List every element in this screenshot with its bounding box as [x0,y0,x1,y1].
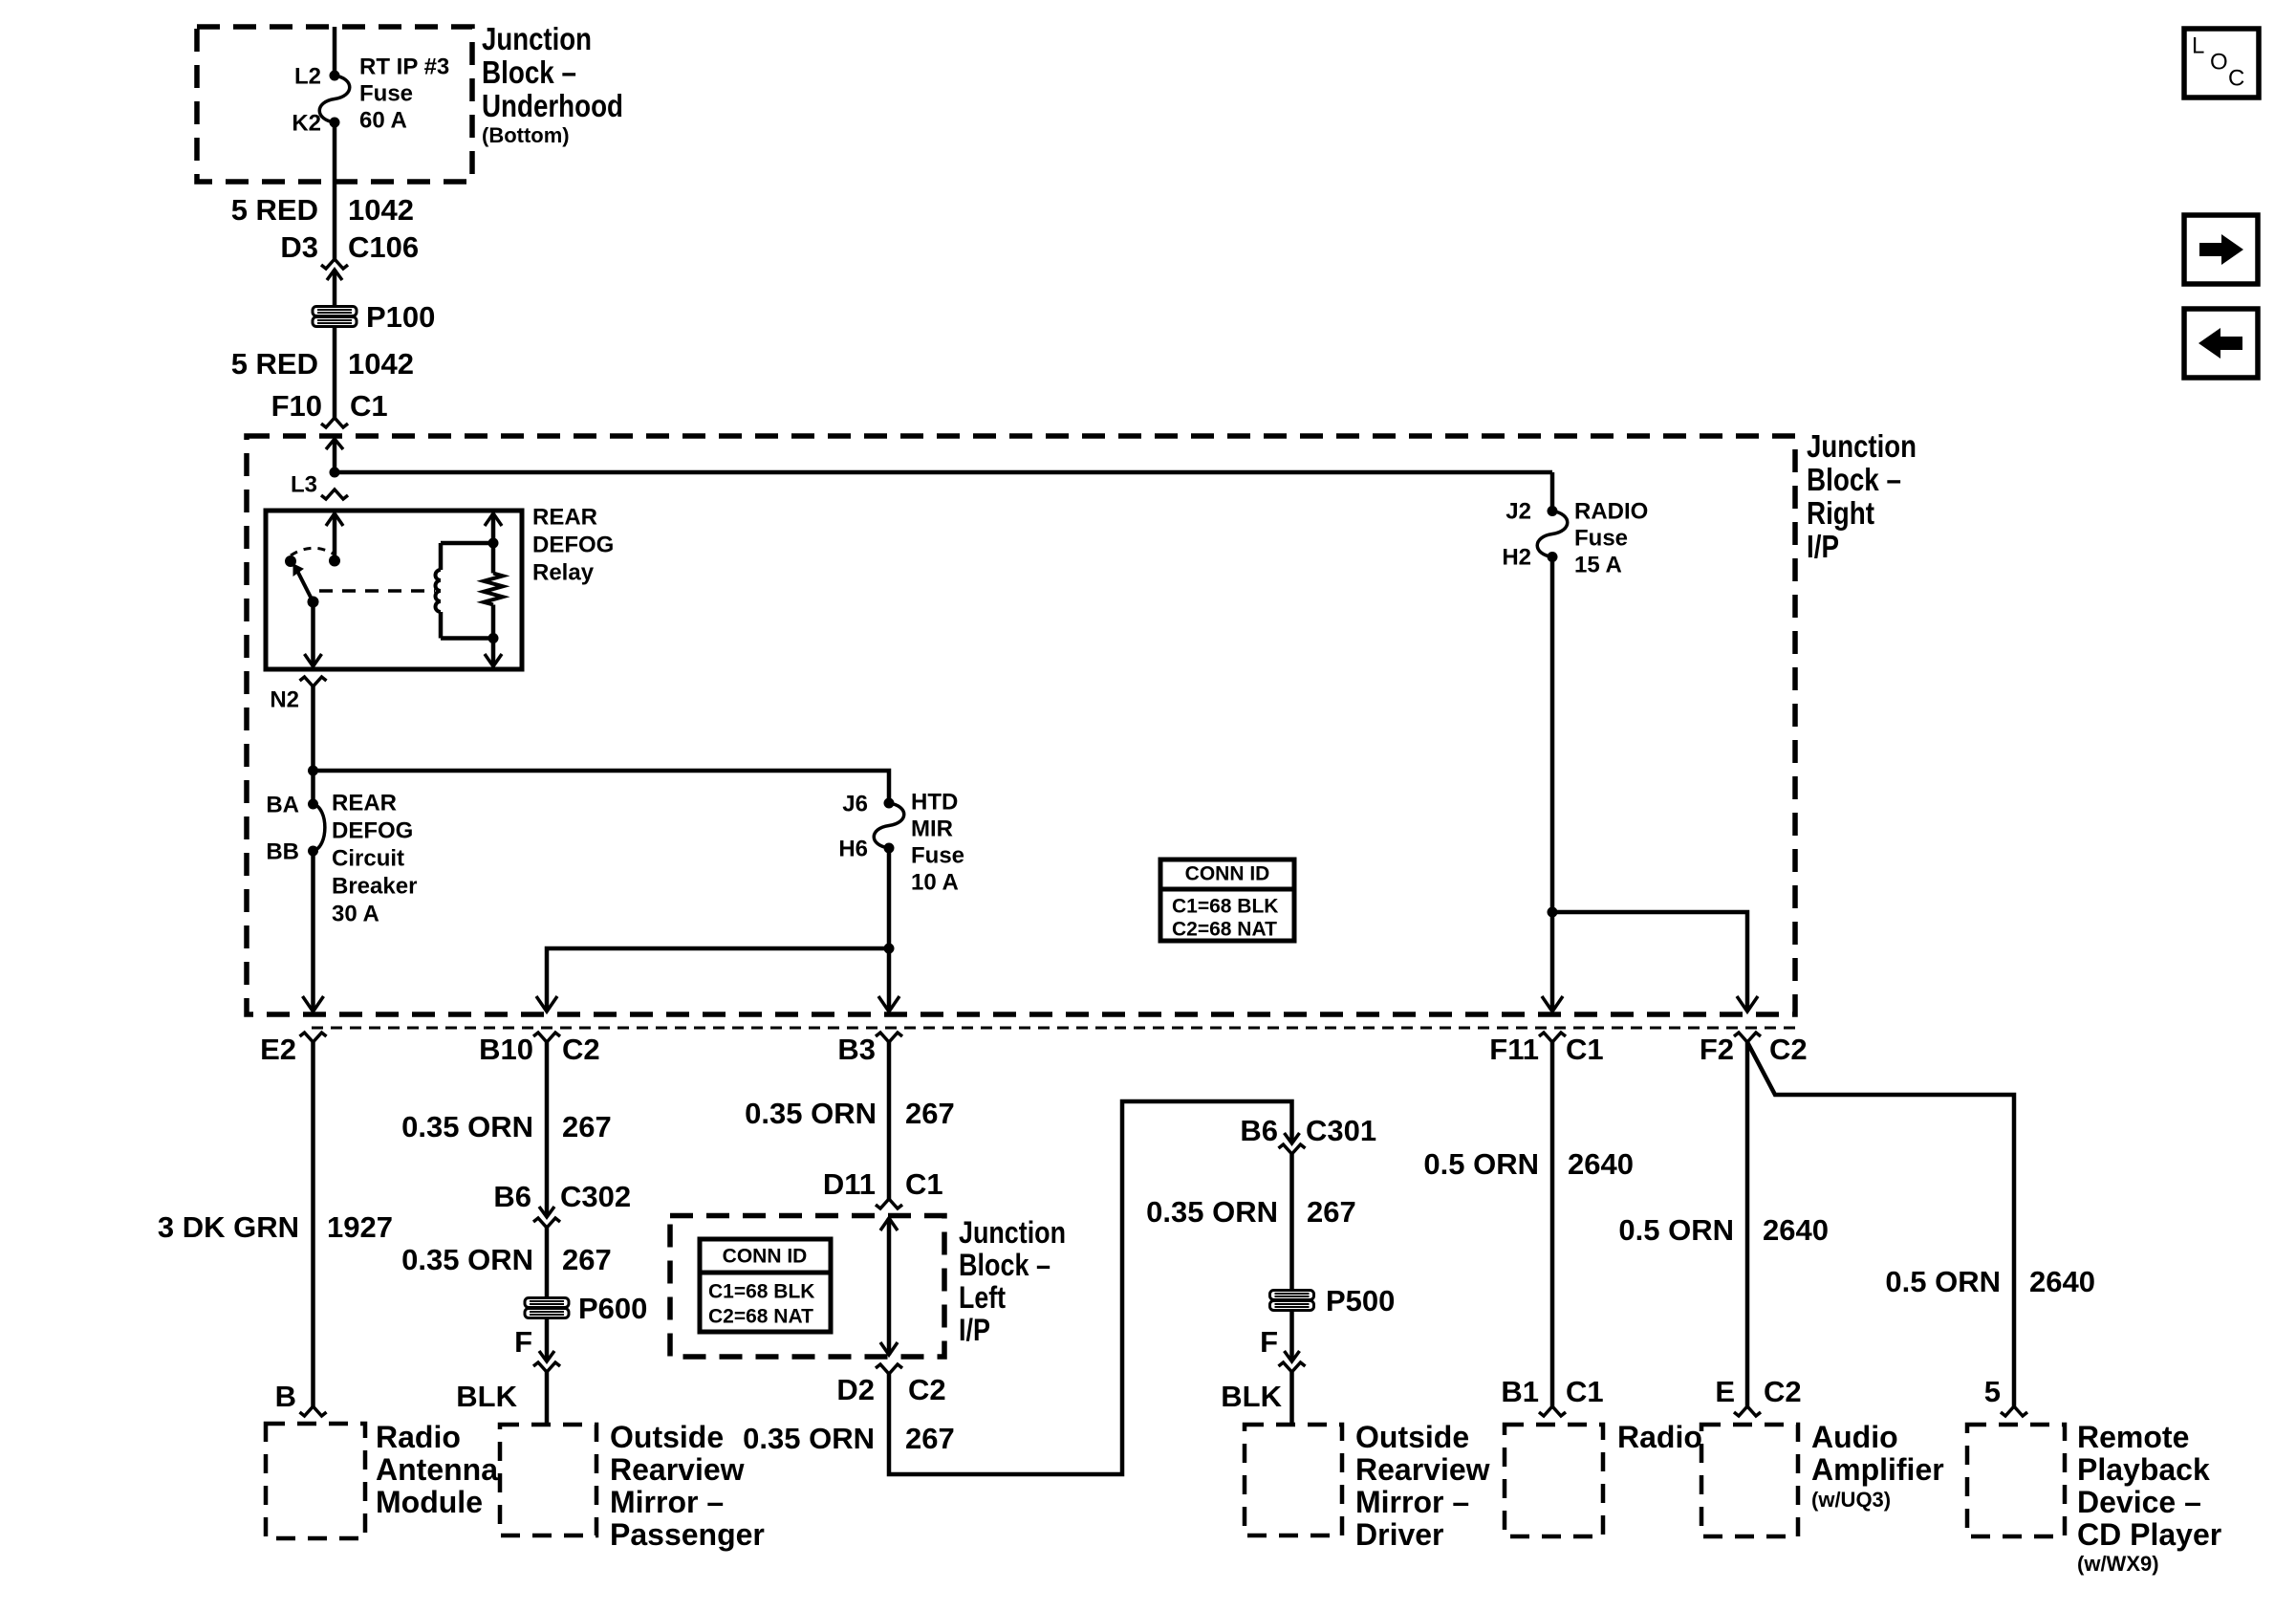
wire branch to HTD MIR fuse [314,771,890,803]
wire branch to CD player (diagonal + horizontal) [1747,1042,2014,1406]
svg-text:0.35 ORN: 0.35 ORN [1146,1195,1278,1229]
relay label REAR DEFOG Relay [532,504,614,585]
wire H6 down to junction [887,848,892,948]
svg-text:267: 267 [562,1110,612,1143]
relay resistor branch [484,513,503,666]
svg-text:F: F [1260,1325,1278,1359]
pin BB [266,839,299,865]
fuse RADIO 15 A (pins J2/H2) [1537,472,1568,562]
svg-text:Underhood: Underhood [482,88,623,123]
svg-text:Left: Left [959,1280,1006,1315]
label Outside Rearview Mirror - Passenger [610,1420,765,1552]
svg-text:2640: 2640 [1763,1213,1829,1247]
pin B1 / C1 labels [1501,1375,1603,1408]
svg-text:C2: C2 [908,1373,946,1406]
svg-text:E2: E2 [260,1033,296,1066]
pin D2 / C2 labels [836,1373,945,1406]
wire label 0.35 ORN | 267 (C301) [1146,1195,1356,1229]
wire 3 DK GRN 1927 to radio antenna module [311,1042,315,1406]
svg-text:C2: C2 [1764,1375,1802,1408]
pin F label [514,1325,532,1359]
svg-text:3 DK GRN: 3 DK GRN [158,1210,299,1244]
svg-text:Junction: Junction [482,21,592,56]
relay switch arm with arrowhead [293,564,319,608]
wire label 0.5 ORN | 2640 (F2) [1618,1213,1829,1247]
pin K2 [292,111,321,137]
svg-text:C2=68 NAT: C2=68 NAT [708,1306,813,1328]
wire 0.35 ORN 267 (C301 to P500) [1289,1154,1294,1291]
svg-text:P100: P100 [366,300,435,334]
svg-text:REAR: REAR [532,504,597,530]
svg-text:Module: Module [376,1485,483,1519]
svg-text:P500: P500 [1326,1284,1395,1317]
relay switch open contact [285,555,296,567]
svg-text:J2: J2 [1505,499,1531,525]
svg-text:1927: 1927 [327,1210,393,1244]
radio box [1505,1425,1603,1536]
connector chevron at F2 [1734,1033,1761,1042]
svg-text:CONN ID: CONN ID [1185,863,1270,885]
relay switch travel arc (dashed) [291,548,335,555]
svg-text:Rearview: Rearview [1355,1452,1490,1487]
svg-text:RADIO: RADIO [1574,498,1648,524]
svg-text:CONN ID: CONN ID [723,1246,808,1268]
block label: Junction Block - Left I/P [959,1215,1066,1347]
svg-text:1042: 1042 [348,193,414,227]
svg-text:HTD: HTD [911,789,958,815]
svg-text:5 RED: 5 RED [231,347,318,381]
wire H2 down to junction [1550,557,1555,913]
block label: Junction Block - Right I/P [1807,428,1917,564]
svg-text:F2: F2 [1700,1033,1734,1066]
svg-text:15 A: 15 A [1574,552,1622,577]
pin B10 / C2 labels [479,1033,600,1066]
svg-text:Radio: Radio [1617,1420,1702,1454]
svg-text:Playback: Playback [2077,1452,2210,1487]
chevron into radio antenna module [300,1406,327,1416]
svg-text:Relay: Relay [532,559,595,585]
svg-text:C302: C302 [560,1180,631,1213]
relay switch fixed contact [329,555,340,567]
chevron into relay from L3 [321,490,348,499]
pin B6 / C301 labels [1240,1114,1376,1147]
wire P600 to mirror with connector F [533,1317,560,1424]
svg-text:Breaker: Breaker [332,873,417,899]
fuse label HTD MIR Fuse 10 A [911,789,964,895]
wire from L3 to RADIO fuse (horizontal) [335,470,1552,475]
label Audio Amplifier (w/UQ3) [1811,1420,1944,1512]
pin E2 label [260,1033,296,1066]
wire from box top to fuse pin L2 [333,27,337,76]
svg-text:K2: K2 [292,111,321,137]
chevron into audio amplifier [1734,1406,1761,1416]
wire color BLK label [456,1380,517,1413]
svg-text:(w/WX9): (w/WX9) [2077,1552,2159,1576]
node N2 chevron [300,677,327,686]
connector D2 chevron [876,1364,902,1374]
svg-text:J6: J6 [842,792,868,817]
right arrow icon box [2184,215,2258,284]
grommet P600 [525,1292,647,1325]
svg-text:CD Player: CD Player [2077,1517,2221,1552]
fuse label RADIO Fuse 15 A [1574,498,1648,577]
radio antenna module box [266,1424,365,1538]
svg-text:5: 5 [1984,1375,2001,1408]
svg-text:C2: C2 [1769,1033,1808,1066]
svg-text:C106: C106 [348,230,419,264]
wire branch to B10 exit [536,948,889,1012]
svg-text:10 A: 10 A [911,869,959,895]
pin F2 / C2 labels [1700,1033,1808,1066]
svg-text:0.5 ORN: 0.5 ORN [1618,1213,1734,1247]
svg-text:2640: 2640 [2029,1265,2095,1298]
svg-text:0.5 ORN: 0.5 ORN [1885,1265,2001,1298]
connector C302 (in-line) [533,1207,560,1228]
svg-text:30 A: 30 A [332,901,379,926]
block label: Junction Block - Underhood (Bottom) [482,21,623,147]
svg-text:0.35 ORN: 0.35 ORN [401,1110,533,1143]
junction dot to HTD MIR branch [308,766,318,776]
svg-text:Mirror –: Mirror – [610,1485,724,1519]
wire label 0.35 ORN | 267 (second) [401,1243,612,1276]
wire P500 to mirror with connector F [1279,1310,1306,1424]
outside rearview mirror - driver box [1245,1425,1342,1535]
wire 0.35 ORN 267 routed D2 to C301 [889,1101,1300,1474]
svg-text:C: C [2228,65,2244,91]
wire N2 down to breaker [311,686,315,804]
CONN ID table (right I/P) [1160,860,1294,941]
svg-text:5 RED: 5 RED [231,193,318,227]
node L3 junction dot [330,468,340,478]
svg-text:F11: F11 [1489,1033,1539,1066]
svg-text:C301: C301 [1306,1114,1376,1147]
pin L2 [294,64,321,90]
svg-text:0.35 ORN: 0.35 ORN [743,1422,875,1455]
junction block - right I/P box [247,436,1795,1014]
svg-text:BLK: BLK [1221,1380,1282,1413]
wire branch to F2 exit [1552,912,1758,1012]
svg-text:BA: BA [266,793,299,818]
relay REAR DEFOG box [266,511,522,669]
svg-text:Amplifier: Amplifier [1811,1452,1944,1487]
svg-text:L3: L3 [291,472,317,498]
svg-text:F: F [514,1325,532,1359]
fuse HTD MIR 10 A (pins J6/H6) [874,798,904,854]
audio amplifier box [1701,1425,1798,1536]
relay switch input arrow [326,513,343,560]
svg-text:D2: D2 [836,1373,875,1406]
svg-text:L2: L2 [294,64,321,90]
pin F label (driver) [1260,1325,1278,1359]
svg-text:0.5 ORN: 0.5 ORN [1423,1147,1539,1181]
svg-text:E: E [1715,1375,1735,1408]
wire to B3 exit [878,948,899,1012]
svg-text:Antenna: Antenna [376,1452,498,1487]
svg-text:267: 267 [905,1422,955,1455]
connector chevron at B3 [876,1033,902,1042]
svg-text:C1: C1 [905,1167,943,1201]
svg-text:267: 267 [1307,1195,1356,1229]
svg-text:Outside: Outside [1355,1420,1469,1454]
svg-text:C1=68 BLK: C1=68 BLK [708,1281,814,1303]
chevron into radio [1539,1406,1566,1416]
connector chevron at E2 [300,1033,327,1042]
wire 5 RED 1042 (lower segment) [333,326,337,418]
wire label 0.5 ORN | 2640 (CD player) [1885,1265,2095,1298]
svg-text:C2: C2 [562,1033,600,1066]
pin J2 [1505,499,1531,525]
pin 5 label [1984,1375,2001,1408]
svg-text:Rearview: Rearview [610,1452,745,1487]
svg-text:D3: D3 [280,230,318,264]
pin J6 [842,792,868,817]
svg-text:DEFOG: DEFOG [332,817,413,843]
svg-text:0.35 ORN: 0.35 ORN [745,1097,877,1130]
svg-text:267: 267 [562,1243,612,1276]
pin L3 label [291,472,317,498]
svg-text:Mirror –: Mirror – [1355,1485,1469,1519]
svg-text:Fuse: Fuse [359,80,413,106]
svg-text:Fuse: Fuse [911,842,964,868]
wire label 0.35 ORN | 267 (D2) [743,1422,955,1455]
grommet P100 [313,300,435,334]
junction block - left I/P box [670,1216,944,1358]
svg-text:Audio: Audio [1811,1420,1898,1454]
svg-text:C2=68 NAT: C2=68 NAT [1172,919,1277,941]
svg-text:C1: C1 [1566,1033,1604,1066]
svg-text:2640: 2640 [1568,1147,1634,1181]
relay switch output wire with arrow [305,602,322,667]
svg-text:I/P: I/P [959,1313,990,1347]
connector C106 pin D3 label [280,230,419,264]
svg-text:RT IP #3: RT IP #3 [359,54,449,79]
pin E / C2 labels [1715,1375,1801,1408]
connector chevron at B10 [533,1033,560,1042]
pin D11 / C1 labels [823,1167,943,1201]
svg-text:Block –: Block – [482,54,576,90]
svg-text:0.35 ORN: 0.35 ORN [401,1243,533,1276]
left arrow icon box [2184,309,2258,378]
wire label 0.35 ORN | 267 (B3) [745,1097,955,1130]
svg-text:Remote: Remote [2077,1420,2189,1454]
svg-text:Fuse: Fuse [1574,525,1628,551]
svg-text:267: 267 [905,1097,955,1130]
svg-text:N2: N2 [270,687,299,713]
connector C106 (in-line, female + male) [321,259,348,307]
pin N2 label [270,687,299,713]
relay coil branch [436,543,494,639]
breaker label REAR DEFOG Circuit Breaker 30 A [332,790,417,926]
svg-text:Radio: Radio [376,1420,461,1454]
pin B label [275,1380,296,1413]
svg-text:Circuit: Circuit [332,845,404,871]
connector D11 chevron [876,1199,902,1208]
junction dot F11/F2 [1548,907,1558,918]
svg-text:Passenger: Passenger [610,1517,765,1552]
svg-text:DEFOG: DEFOG [532,532,614,557]
label Radio Antenna Module [376,1420,498,1519]
pin BA [266,793,299,818]
pin F11 / C1 labels [1489,1033,1603,1066]
connector row line (fine dashed) [312,1027,1795,1030]
svg-text:H2: H2 [1502,545,1531,571]
svg-text:B6: B6 [1240,1114,1278,1147]
svg-text:B1: B1 [1501,1375,1539,1408]
wire label 5 RED | 1042 (second) [231,347,414,381]
svg-text:B: B [275,1380,296,1413]
pin F10 / C1 labels [271,389,388,423]
wire to F11 exit [1542,912,1563,1012]
svg-text:B3: B3 [837,1033,876,1066]
svg-text:O: O [2210,49,2228,75]
remote playback device box [1967,1425,2065,1536]
grommet P500 [1270,1284,1396,1317]
wire 0.5 ORN 2640 (F11 to radio) [1550,1042,1555,1406]
svg-text:Junction: Junction [1807,428,1917,464]
wire label 0.5 ORN | 2640 (F11) [1423,1147,1634,1181]
svg-text:REAR: REAR [332,790,397,816]
outside rearview mirror - passenger box [500,1425,596,1535]
chevron into remote playback device [2001,1406,2027,1416]
pin B6 / C302 labels [493,1180,631,1213]
svg-text:C1: C1 [1566,1375,1604,1408]
pin B3 label [837,1033,876,1066]
svg-text:P600: P600 [578,1292,647,1325]
svg-text:60 A: 60 A [359,107,407,133]
svg-text:I/P: I/P [1807,529,1839,564]
CONN ID table (left I/P) [700,1239,831,1332]
wire 0.5 ORN 2640 (F2 to audio amplifier) [1745,1042,1750,1406]
svg-text:H6: H6 [838,837,868,862]
pin H2 [1502,545,1531,571]
wire label 0.35 ORN | 267 [401,1110,612,1143]
pin H6 [838,837,868,862]
junction block - underhood (bottom) box [197,27,472,182]
svg-text:MIR: MIR [911,816,953,841]
wire 0.35 ORN 267 (B3 to D11) [887,1042,892,1199]
wire 0.35 ORN 267 (B10 to C302) [545,1042,550,1215]
circuit breaker REAR DEFOG 30 A (pins BA/BB) [308,799,325,857]
svg-text:D11: D11 [823,1167,876,1201]
wire color BLK label (driver) [1221,1380,1282,1413]
svg-text:Block –: Block – [959,1248,1051,1282]
svg-text:Block –: Block – [1807,462,1901,497]
svg-text:Right: Right [1807,495,1874,531]
svg-text:1042: 1042 [348,347,414,381]
label Radio [1617,1420,1702,1454]
relay coil control dashed line [319,589,435,593]
wire label 3 DK GRN | 1927 [158,1210,393,1244]
fuse RT IP #3 60 A (pins L2/K2) [319,71,350,128]
svg-text:C1: C1 [350,389,388,423]
svg-text:(w/UQ3): (w/UQ3) [1811,1488,1891,1512]
svg-text:C1=68 BLK: C1=68 BLK [1172,896,1278,918]
label Remote Playback Device - CD Player (w/WX9) [2077,1420,2221,1576]
connector C301 chevron [1279,1144,1306,1154]
svg-text:Junction: Junction [959,1215,1066,1250]
svg-text:BB: BB [266,839,299,865]
svg-text:Driver: Driver [1355,1517,1444,1552]
svg-text:B10: B10 [479,1033,533,1066]
LOC icon box [2184,29,2259,98]
wire label 5 RED | 1042 [231,193,414,227]
wire breaker to E2 exit [303,851,324,1012]
svg-text:BLK: BLK [456,1380,517,1413]
wire through left I/P box with arrows [880,1218,898,1355]
wire 5 RED 1042 (upper segment) [333,122,337,259]
svg-text:Outside: Outside [610,1420,724,1454]
wire 0.35 ORN 267 (C302 to P600) [545,1228,550,1298]
connector chevron at F11 [1539,1033,1566,1042]
connector F10 chevron [321,418,348,427]
junction dot H6/B10/B3 [884,944,895,954]
label Outside Rearview Mirror - Driver [1355,1420,1490,1552]
svg-text:L: L [2192,33,2204,58]
entry arrow into right I/P box at F10 [326,439,343,472]
svg-text:F10: F10 [271,389,322,423]
svg-text:B6: B6 [493,1180,531,1213]
svg-text:Device –: Device – [2077,1485,2201,1519]
fuse value label RT IP #3 Fuse 60 A [359,54,449,133]
svg-text:(Bottom): (Bottom) [482,123,570,147]
